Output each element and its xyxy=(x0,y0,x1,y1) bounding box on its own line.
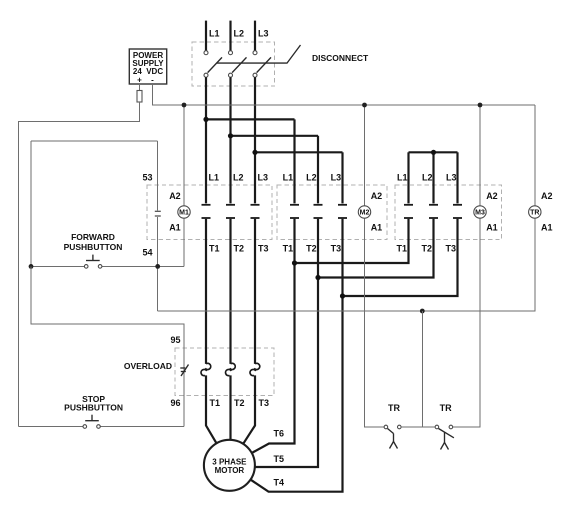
svg-text:T5: T5 xyxy=(274,454,285,464)
svg-text:MOTOR: MOTOR xyxy=(215,466,245,475)
svg-text:L3: L3 xyxy=(446,172,457,182)
svg-text:A1: A1 xyxy=(371,222,383,232)
svg-text:53: 53 xyxy=(142,172,152,182)
svg-text:L3: L3 xyxy=(258,29,269,39)
svg-text:DISCONNECT: DISCONNECT xyxy=(312,53,369,63)
svg-text:T3: T3 xyxy=(259,398,270,408)
svg-text:A1: A1 xyxy=(486,222,498,232)
svg-text:T2: T2 xyxy=(306,243,317,253)
svg-text:T1: T1 xyxy=(209,243,220,253)
svg-text:T1: T1 xyxy=(283,243,294,253)
svg-text:T3: T3 xyxy=(258,243,269,253)
svg-text:L2: L2 xyxy=(233,172,244,182)
svg-text:M3: M3 xyxy=(475,209,485,216)
svg-text:-: - xyxy=(151,75,154,84)
svg-text:T4: T4 xyxy=(274,478,285,488)
svg-text:95: 95 xyxy=(170,335,180,345)
svg-text:TR: TR xyxy=(440,403,452,413)
svg-text:T1: T1 xyxy=(396,243,407,253)
svg-text:L2: L2 xyxy=(234,29,245,39)
svg-text:T1: T1 xyxy=(210,398,221,408)
svg-text:A2: A2 xyxy=(541,191,553,201)
svg-text:M1: M1 xyxy=(179,209,189,216)
svg-text:M2: M2 xyxy=(360,209,370,216)
svg-text:L2: L2 xyxy=(422,172,433,182)
svg-text:T3: T3 xyxy=(331,243,342,253)
svg-text:L3: L3 xyxy=(258,172,269,182)
svg-text:L2: L2 xyxy=(306,172,317,182)
svg-text:T2: T2 xyxy=(234,243,245,253)
svg-text:T3: T3 xyxy=(445,243,456,253)
svg-text:L1: L1 xyxy=(397,172,408,182)
svg-text:T2: T2 xyxy=(234,398,245,408)
svg-text:OVERLOAD: OVERLOAD xyxy=(124,361,172,371)
svg-text:TR: TR xyxy=(530,209,539,216)
svg-text:TR: TR xyxy=(388,403,400,413)
svg-text:A2: A2 xyxy=(169,191,181,201)
svg-text:A2: A2 xyxy=(486,191,498,201)
svg-text:T2: T2 xyxy=(421,243,432,253)
svg-text:L3: L3 xyxy=(331,172,342,182)
svg-text:T6: T6 xyxy=(274,429,285,439)
svg-text:PUSHBUTTON: PUSHBUTTON xyxy=(64,242,123,252)
svg-text:L1: L1 xyxy=(209,29,220,39)
svg-text:54: 54 xyxy=(142,248,152,258)
svg-text:PUSHBUTTON: PUSHBUTTON xyxy=(64,403,123,413)
svg-text:96: 96 xyxy=(170,398,180,408)
svg-text:L1: L1 xyxy=(209,172,220,182)
svg-text:A1: A1 xyxy=(541,222,553,232)
svg-text:L1: L1 xyxy=(283,172,294,182)
svg-text:A1: A1 xyxy=(169,222,181,232)
svg-text:A2: A2 xyxy=(371,191,383,201)
svg-text:+: + xyxy=(137,75,142,84)
svg-text:FORWARD: FORWARD xyxy=(71,232,115,242)
